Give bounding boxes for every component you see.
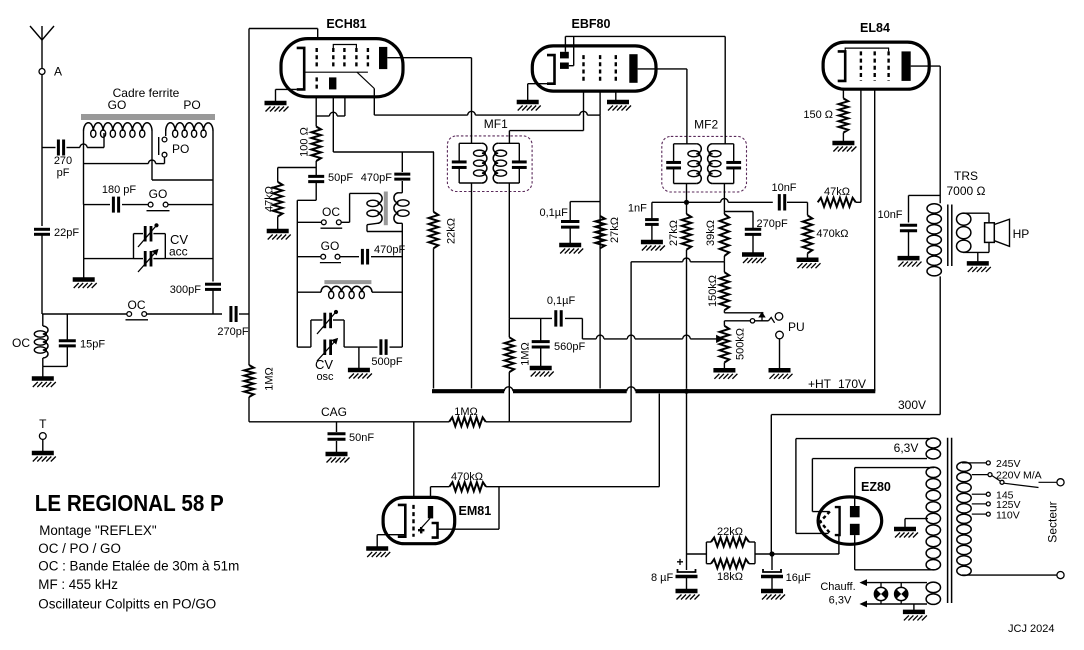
ground HP: [967, 252, 991, 272]
label Cadre ferrite: [113, 86, 180, 100]
capacitor 270pF det: [724, 212, 788, 264]
winding HV: [926, 467, 940, 570]
HV center tap: [894, 519, 928, 538]
resistor 22kΩ divider: [687, 526, 756, 564]
EL84 g3 strap: [845, 48, 888, 51]
svg-text:CAG: CAG: [321, 405, 347, 419]
capacitor 15pF: [59, 314, 106, 351]
capacitor 500pF: [371, 339, 402, 368]
switch OC bande etalee: [126, 298, 149, 320]
tap 145: [972, 489, 1014, 501]
IF transformer MF1: [447, 117, 532, 192]
svg-text:100 Ω: 100 Ω: [299, 127, 311, 157]
winding chauffage: [926, 582, 940, 604]
wire secteur bottom: [962, 574, 1057, 576]
resistor 150kΩ: [707, 262, 729, 310]
ECH81 screen line: [304, 71, 368, 73]
wire MF2 prim bottom: [684, 184, 689, 205]
EZ80 anodes: [850, 506, 860, 535]
subtitle 5: [38, 596, 216, 611]
svg-text:HP: HP: [1013, 227, 1030, 241]
svg-text:6,3V: 6,3V: [829, 595, 852, 607]
svg-text:Chauff.: Chauff.: [820, 581, 855, 593]
wire HT to divider: [686, 391, 688, 554]
capacitor 22pF: [34, 227, 79, 239]
label 300V: [898, 398, 926, 412]
EM81 target: [428, 506, 433, 518]
wire EL84 cathode: [842, 89, 844, 98]
svg-text:470pF: 470pF: [374, 244, 405, 256]
ground ECH81 cathode: [265, 89, 297, 111]
subtitle 2: [38, 541, 121, 556]
EL84 grid g3: [887, 51, 889, 81]
svg-text:7000 Ω: 7000 Ω: [947, 184, 986, 198]
switch PU contact arrow: [759, 313, 765, 321]
svg-text:110V: 110V: [996, 509, 1020, 521]
svg-text:8 µF: 8 µF: [651, 572, 674, 584]
svg-text:+HT: +HT: [808, 377, 832, 391]
EZ80 cathode: [835, 507, 840, 535]
potentiometer 500kΩ: [720, 326, 747, 363]
label GO coil: [108, 98, 127, 112]
wire TRS primary down: [771, 276, 940, 554]
wire OC row left: [42, 313, 127, 315]
svg-text:22pF: 22pF: [54, 227, 79, 239]
capacitor 50nF: [326, 422, 375, 463]
wire osc rail down: [401, 232, 403, 348]
svg-text:470kΩ: 470kΩ: [816, 228, 848, 240]
svg-text:LE REGIONAL 58 P: LE REGIONAL 58 P: [35, 490, 224, 516]
capacitor 1nF: [628, 202, 665, 250]
terminal secteur top: [1057, 479, 1064, 486]
svg-text:470kΩ: 470kΩ: [451, 471, 483, 483]
svg-text:245V: 245V: [996, 458, 1021, 470]
wire audio line: [582, 318, 717, 339]
antenna A: [30, 26, 54, 68]
EL84 grid g1: [860, 51, 862, 81]
IF transformer MF2: [662, 117, 747, 192]
svg-text:+: +: [676, 555, 683, 569]
terminal T: [32, 417, 56, 462]
wire diodes to MF2: [565, 36, 725, 143]
ground OC tank: [32, 366, 56, 387]
svg-text:220V: 220V: [996, 470, 1021, 482]
svg-text:CV: CV: [315, 357, 333, 372]
tap 125V: [972, 499, 1021, 511]
wire g1 node: [316, 97, 345, 127]
svg-text:39kΩ: 39kΩ: [705, 220, 717, 246]
inductor GO winding: [84, 123, 153, 138]
resistor 100Ω: [299, 127, 321, 162]
svg-text:270pF: 270pF: [217, 326, 248, 338]
capacitor 8µF: [651, 554, 700, 600]
svg-text:MF : 455 kHz: MF : 455 kHz: [38, 577, 118, 592]
wire right rail to OC row: [212, 290, 214, 315]
wire PO right rail: [212, 131, 214, 282]
resistor 150Ω: [803, 98, 848, 132]
svg-text:150kΩ: 150kΩ: [707, 275, 719, 307]
resistor 1MΩ CAG: [449, 406, 486, 426]
svg-text:T: T: [39, 417, 47, 431]
wire 100Ω to node: [315, 161, 317, 176]
wire OC osc to transformer: [341, 193, 370, 222]
node bus 170V: [684, 389, 689, 394]
capacitor 0,1µF screen: [540, 202, 601, 254]
svg-text:10nF: 10nF: [877, 209, 902, 221]
wire OC coil top: [42, 314, 44, 326]
tube EBF80: [532, 17, 656, 91]
wire screen line: [374, 111, 600, 115]
EBF80 grid g2: [599, 55, 601, 84]
wire CV osc bottom row: [297, 346, 402, 348]
potentiometer wiper arrow: [717, 336, 724, 343]
tap 220V: [972, 470, 1042, 482]
svg-text:0,1µF: 0,1µF: [540, 207, 569, 219]
EL84 anode: [902, 51, 911, 81]
svg-text:GO: GO: [108, 98, 127, 112]
EL84 cathode: [838, 51, 846, 81]
node 300V: [769, 551, 774, 556]
svg-text:500kΩ: 500kΩ: [735, 328, 747, 360]
tube EL84: [823, 21, 929, 89]
subtitle 4: [38, 577, 118, 592]
svg-text:OC: OC: [322, 205, 340, 219]
TRS primary: [927, 204, 941, 276]
svg-text:MF1: MF1: [484, 117, 508, 131]
variable capacitor CV osc: [311, 310, 344, 383]
svg-text:OC: OC: [128, 298, 146, 312]
ECH81 hexode anode: [379, 47, 387, 69]
resistor 470kΩ grid leak: [797, 202, 849, 268]
capacitor 16µF: [761, 554, 811, 600]
capacitor 10nF anode: [877, 195, 940, 266]
svg-text:270: 270: [54, 155, 72, 167]
svg-text:22kΩ: 22kΩ: [446, 218, 458, 244]
wire EM81 grid: [413, 422, 415, 497]
switch M/A: [992, 476, 1057, 488]
svg-text:270pF: 270pF: [757, 218, 788, 230]
wire AVC takeoff: [630, 262, 632, 422]
svg-text:acc: acc: [169, 245, 188, 259]
inductor oscillateur PO/GO: [297, 286, 402, 298]
label Secteur: [1046, 501, 1060, 542]
svg-text:1MΩ: 1MΩ: [454, 406, 478, 418]
label JCJ 2024: [1008, 623, 1054, 635]
wire 47k branch: [278, 168, 317, 182]
wire HV top: [855, 467, 934, 469]
wire 270pF to grid rail: [239, 313, 249, 315]
svg-text:15pF: 15pF: [80, 339, 105, 351]
svg-text:18kΩ: 18kΩ: [717, 571, 743, 583]
EBF80 anode: [629, 54, 637, 83]
wire AVC to CAG: [508, 372, 510, 422]
svg-text:22kΩ: 22kΩ: [717, 526, 743, 538]
svg-text:170V: 170V: [838, 377, 866, 391]
variable capacitor CV acc: [134, 223, 189, 272]
svg-text:Montage "REFLEX": Montage "REFLEX": [39, 523, 157, 538]
TRS secondary: [957, 213, 971, 252]
wire GO coil right down: [152, 131, 213, 180]
oscillator transformer core: [384, 192, 388, 226]
ECH81 grids g2 g4: [333, 45, 356, 70]
wire EBF80 cathode gnd: [517, 84, 547, 111]
svg-text:1nF: 1nF: [628, 202, 647, 214]
svg-text:JCJ 2024: JCJ 2024: [1008, 623, 1054, 635]
wire EBF80 g2 down: [599, 91, 601, 388]
switch PU blade: [768, 313, 782, 323]
winding 6,3V rectifier: [926, 438, 940, 459]
transformer core: [948, 438, 952, 603]
ground 500kΩ: [713, 363, 737, 379]
svg-text:Secteur: Secteur: [1046, 501, 1060, 542]
label Chauff 6,3V: [820, 581, 855, 607]
wire EL84 anode to TRS: [911, 66, 941, 203]
wire 180pF row right: [168, 204, 213, 206]
ECH81 grid g1: [316, 48, 318, 89]
wire HP bottom: [963, 242, 989, 252]
ground 47kΩ: [267, 217, 291, 240]
capacitor 470pF osc: [361, 152, 411, 193]
svg-text:GO: GO: [321, 239, 340, 253]
svg-text:MF2: MF2: [694, 117, 718, 131]
ground cadre: [73, 259, 97, 288]
wire ECH81 anode to MF1: [387, 58, 471, 144]
svg-text:180 pF: 180 pF: [102, 184, 137, 196]
resistor 39kΩ: [705, 214, 729, 262]
EM81 screen lead: [438, 487, 500, 530]
svg-text:10nF: 10nF: [771, 182, 796, 194]
svg-text:27kΩ: 27kΩ: [668, 220, 680, 246]
wire pot top to switch: [724, 319, 768, 326]
EM81 grid: [412, 505, 414, 537]
speaker HP: [985, 219, 1030, 246]
osc transformer secondary: [394, 193, 409, 232]
EM81 cathode: [398, 505, 406, 537]
EBF80 grid g1: [582, 55, 584, 84]
svg-text:1MΩ: 1MΩ: [264, 367, 276, 391]
resistor 47kΩ grid: [818, 186, 856, 207]
EBF80 grid g3: [615, 55, 617, 84]
EZ80 filament: [820, 511, 830, 533]
wire EZ80 anode HV: [855, 468, 935, 570]
svg-text:OC: OC: [12, 336, 30, 350]
svg-text:TRS: TRS: [954, 169, 978, 183]
svg-text:500pF: 500pF: [371, 356, 402, 368]
EM81 screen electrode: [432, 523, 438, 538]
ECH81 screen exit: [357, 72, 374, 115]
svg-text:470pF: 470pF: [361, 172, 392, 184]
capacitor 0,1µF audio: [509, 295, 582, 327]
TRS core: [948, 205, 952, 267]
tap 110V: [972, 509, 1020, 521]
wire CAG right: [486, 421, 631, 423]
svg-text:150 Ω: 150 Ω: [803, 109, 833, 121]
title: [35, 490, 224, 516]
svg-text:47kΩ: 47kΩ: [264, 186, 276, 212]
capacitor 10nF coupling: [771, 182, 807, 211]
terminal PU: [769, 320, 805, 379]
osc coil ferrite: [324, 280, 371, 284]
svg-text:300V: 300V: [898, 398, 926, 412]
capacitor 470pF GO: [362, 244, 405, 265]
osc transformer primary: [367, 193, 402, 231]
wire MF1 sec top to EBF80 g1: [509, 91, 583, 143]
ground CV osc: [348, 347, 372, 378]
wire 50pF to osc rail: [297, 182, 316, 347]
wire CV acc row: [84, 205, 213, 259]
svg-text:47kΩ: 47kΩ: [824, 186, 850, 198]
capacitor 50pF: [308, 172, 353, 184]
inductor PO winding: [166, 123, 213, 138]
label 6,3V: [894, 441, 919, 455]
wire 470kΩ to HT: [486, 394, 659, 487]
capacitor 270pF antenna: [42, 140, 72, 180]
lamp 1: [874, 583, 887, 604]
EM81 ray: [420, 518, 430, 529]
wire EBF80 g3 gnd: [607, 91, 631, 110]
ECH81 grid g3: [344, 48, 368, 69]
wire grid rail: [249, 29, 318, 366]
wire GO coil left down: [83, 131, 85, 205]
wire MF2 sec bottom: [723, 184, 725, 215]
svg-text:50pF: 50pF: [328, 172, 353, 184]
resistor 1MΩ grid: [244, 365, 275, 422]
wire MF1 sec bottom AVC: [508, 183, 510, 337]
svg-text:EL84: EL84: [860, 21, 890, 35]
lamp 2: [895, 583, 908, 604]
resistor 22kΩ: [429, 152, 458, 389]
resistor 47kΩ: [264, 182, 283, 217]
svg-text:pF: pF: [57, 167, 70, 179]
wire antenna to OC row: [41, 235, 43, 315]
svg-text:PU: PU: [788, 320, 805, 334]
capacitor 300pF: [170, 284, 221, 296]
wire OC tank bottom: [43, 346, 68, 366]
svg-text:EBF80: EBF80: [572, 17, 611, 31]
ECH81 cathode: [297, 48, 305, 90]
subtitle 1: [39, 523, 157, 538]
switch GO osc: [297, 239, 359, 263]
svg-text:OC / PO / GO: OC / PO / GO: [38, 541, 121, 556]
wire MF1 primary bottom: [471, 183, 473, 389]
wire 47k to EL84 g1: [856, 89, 861, 202]
bus +HT: [432, 387, 875, 391]
svg-text:50nF: 50nF: [349, 432, 374, 444]
terminal secteur bottom: [1057, 572, 1064, 579]
svg-text:16µF: 16µF: [786, 572, 812, 584]
inductor OC: [12, 326, 48, 358]
svg-text:0,1µF: 0,1µF: [547, 295, 576, 307]
ferrite rod: [81, 114, 215, 120]
wire 180pF row left: [84, 204, 111, 206]
label TRS: [947, 169, 986, 198]
tube ECH81: [281, 17, 403, 97]
wire EM81 cathode: [366, 535, 404, 557]
svg-text:osc: osc: [316, 371, 334, 383]
EL84 grid g2: [874, 51, 876, 81]
svg-text:A: A: [54, 65, 62, 79]
wire EM81 anode: [431, 487, 450, 497]
label +HT 170V: [808, 377, 866, 391]
wire HP top: [963, 213, 989, 223]
wire OC row right: [147, 313, 222, 315]
wire chauff top: [861, 580, 927, 585]
switch PO: [159, 131, 190, 164]
resistor 18kΩ divider: [706, 542, 772, 583]
node A: [39, 65, 62, 79]
wire antenna down: [41, 75, 43, 227]
svg-text:OC : Bande Etalée de 30m à 51m: OC : Bande Etalée de 30m à 51m: [38, 559, 239, 574]
capacitor 560pF: [530, 318, 586, 376]
tap 245V: [962, 458, 1021, 470]
resistor 27kΩ det: [668, 202, 691, 388]
winding secteur: [957, 462, 971, 575]
wire EBF80 anode to MF2: [638, 69, 687, 144]
svg-text:1MΩ: 1MΩ: [520, 342, 532, 366]
wire CAG: [249, 405, 449, 422]
EBF80 cathode: [547, 55, 555, 84]
svg-text:Oscillateur Colpitts en PO/GO: Oscillateur Colpitts en PO/GO: [38, 596, 216, 611]
wire GO bottom row: [84, 160, 165, 164]
resistor 27kΩ screen: [595, 216, 621, 248]
svg-text:PO: PO: [172, 142, 189, 156]
ground 150Ω: [832, 133, 856, 152]
wire chauff bottom: [861, 601, 927, 606]
wire heater top: [796, 439, 929, 534]
wire detector line: [652, 198, 773, 202]
resistor 1MΩ AVC: [505, 337, 532, 372]
switch GO: [122, 187, 170, 211]
capacitor 270pF serie: [217, 306, 248, 338]
EBF80 diode plates: [560, 52, 569, 69]
wire 150k to PU switch: [724, 310, 763, 313]
svg-text:EZ80: EZ80: [861, 480, 891, 494]
wire heater bottom: [812, 459, 927, 512]
wire EZ80 cathode out: [772, 535, 839, 554]
wire 39k to 150k: [631, 258, 724, 262]
tube EM81: [383, 497, 491, 543]
switch OC osc: [297, 205, 342, 228]
svg-text:EM81: EM81: [459, 504, 492, 518]
ground chauffage: [903, 604, 927, 620]
svg-text:ECH81: ECH81: [326, 17, 366, 31]
label PO coil: [183, 98, 200, 112]
wire triode anode down: [333, 97, 434, 152]
EM81 cross: [418, 527, 424, 533]
svg-text:6,3V: 6,3V: [894, 441, 919, 455]
subtitle 3: [38, 559, 239, 574]
resistor 470kΩ EM81: [449, 471, 486, 491]
svg-text:560pF: 560pF: [554, 341, 585, 353]
ECH81 triode anode: [329, 77, 336, 89]
svg-text:M/A: M/A: [1023, 470, 1042, 482]
svg-text:GO: GO: [149, 187, 168, 201]
tube EZ80: [818, 480, 891, 544]
wire 270pF to tap with hop: [67, 133, 105, 148]
svg-text:300pF: 300pF: [170, 284, 201, 296]
wire EL84 g2 to HT: [874, 89, 876, 391]
capacitor 180pF: [102, 184, 137, 213]
svg-text:27kΩ: 27kΩ: [609, 217, 621, 243]
svg-text:PO: PO: [183, 98, 200, 112]
